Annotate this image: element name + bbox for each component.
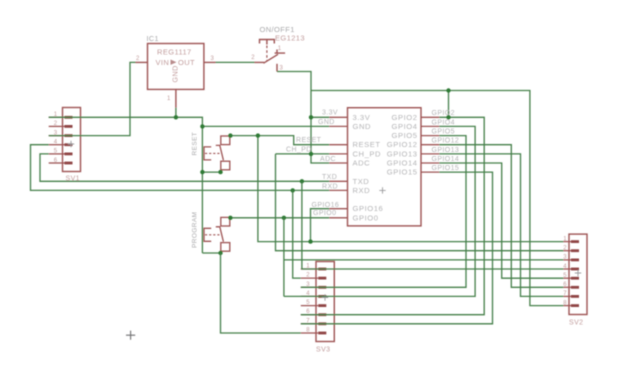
svg-text:2: 2	[306, 273, 310, 279]
svg-text:RESET: RESET	[296, 137, 322, 144]
svg-text:3.3V: 3.3V	[322, 110, 338, 117]
ESP8266 right pins	[421, 116, 439, 118]
RESET button dashed plunger	[205, 152, 220, 154]
svg-text:PROGRAM: PROGRAM	[192, 212, 199, 248]
wire GPIO13 net right side to SV2 pin7	[439, 154, 563, 297]
ON/OFF1 actuator dashed link	[266, 46, 268, 61]
svg-text:RXD: RXD	[322, 183, 338, 190]
node junction 3.3V top rail	[446, 88, 450, 92]
SV2 origin cross	[575, 270, 581, 276]
SV2 pin contacts	[571, 240, 579, 243]
slide switch ON/OFF1 EG1213 actuator bracket	[260, 40, 275, 45]
svg-text:GPIO0: GPIO0	[353, 213, 379, 222]
voltage regulator IC1 REG1117 body	[148, 44, 204, 90]
svg-text:ADC: ADC	[320, 156, 336, 163]
svg-text:ADC: ADC	[353, 159, 371, 168]
svg-text:5: 5	[54, 149, 58, 155]
node junction GPIO2 pull-up	[446, 115, 450, 119]
wire 3.3V net: switch pin3 down and right	[277, 72, 329, 164]
SV3 pin contacts	[318, 268, 326, 271]
svg-text:3: 3	[280, 66, 284, 72]
svg-text:6: 6	[54, 158, 58, 164]
svg-text:GPIO13: GPIO13	[387, 149, 418, 158]
svg-text:1: 1	[167, 96, 171, 102]
wire GPIO16 net to RESET rail	[311, 209, 330, 242]
wire 3.3V pull-up to GPIO2 row	[448, 91, 450, 118]
PROGRAM button lever	[216, 227, 224, 242]
svg-text:CH_PD: CH_PD	[353, 149, 382, 158]
svg-text:GPIO14: GPIO14	[387, 159, 418, 168]
svg-text:8: 8	[306, 328, 310, 334]
node junction TXD branch	[300, 179, 304, 183]
PROGRAM button dashed plunger	[205, 234, 220, 236]
svg-text:4: 4	[563, 264, 567, 270]
SV1 pins	[49, 116, 65, 118]
svg-text:SV3: SV3	[316, 347, 330, 354]
pushbutton RESET contacts	[221, 136, 230, 145]
svg-text:GPIO15: GPIO15	[387, 168, 418, 177]
ESP8266 module U1 body	[348, 108, 422, 226]
svg-text:7: 7	[563, 291, 567, 297]
pushbutton PROGRAM contacts	[221, 217, 230, 226]
SV3 origin cross	[322, 294, 328, 300]
svg-text:5: 5	[306, 300, 310, 306]
svg-text:4: 4	[54, 140, 58, 146]
svg-text:TXD: TXD	[322, 174, 337, 181]
wire GPIO5 net right side to SV3 pin3	[301, 136, 466, 288]
svg-text:5: 5	[563, 273, 567, 279]
svg-text:GPIO2: GPIO2	[432, 110, 455, 117]
svg-text:GPIO13: GPIO13	[432, 147, 460, 154]
wire RXD branch down to SV3 pin2	[293, 190, 301, 278]
wire CH_PD net segment	[276, 153, 330, 155]
wire GPIO2 net right side	[301, 117, 484, 314]
node junction PROGRAM button bottom pin	[218, 251, 222, 255]
wire RESET branch down to SV2 pin1	[258, 136, 564, 242]
wire RESET net: button top to ESP RESET with jog	[230, 136, 329, 145]
node junction GND corner	[200, 124, 204, 128]
ESP8266 left pins	[329, 116, 347, 118]
node junction RESET branch	[256, 133, 260, 137]
IC1 pin 2 VIN (left pin)	[136, 61, 148, 63]
svg-text:GPIO4: GPIO4	[432, 119, 455, 126]
svg-text:GPIO4: GPIO4	[392, 122, 418, 131]
svg-text:GPIO14: GPIO14	[432, 156, 460, 163]
IC1 pin 3 VOUT (right pin)	[204, 61, 216, 63]
svg-text:GPIO0: GPIO0	[313, 210, 336, 217]
RESET button bracket	[204, 147, 211, 160]
PROGRAM button bracket	[204, 228, 211, 241]
IC1 pin 1 GND (bottom pin)	[175, 89, 177, 107]
node junction RESET button top pin	[228, 133, 232, 137]
RESET button lever	[216, 145, 224, 160]
node junction 3.3V at CH_PD row	[309, 152, 313, 156]
wire GPIO15 net right side to SV3 pin6	[301, 172, 493, 324]
ON/OFF1 pin 1 (top throw)	[275, 50, 286, 54]
svg-text:GPIO5: GPIO5	[432, 129, 455, 136]
svg-text:2: 2	[54, 121, 58, 127]
svg-text:GPIO5: GPIO5	[392, 131, 418, 140]
svg-text:GND: GND	[353, 122, 372, 131]
wire VOUT net: IC1 VOUT to switch pin2	[216, 61, 255, 63]
svg-text:8: 8	[563, 300, 567, 306]
svg-text:6: 6	[563, 282, 567, 288]
wire GPIO12 net right side to SV2 pin6	[439, 145, 563, 288]
wire GPIO0 branch down to SV3 pin4 row	[283, 218, 285, 297]
wire 3.3V branch to SV2 pin2	[276, 154, 564, 251]
node junction RXD branch	[291, 188, 295, 192]
node junction PROGRAM button top pin	[228, 216, 232, 220]
ESP8266 origin cross	[379, 187, 385, 193]
RESET button stub to GND wire	[220, 170, 222, 172]
wire TXD branch down to SV3 pin1 and SV2 pin4	[302, 181, 564, 269]
svg-text:GND: GND	[171, 65, 180, 82]
svg-text:GPIO15: GPIO15	[432, 165, 460, 172]
svg-text:OUT: OUT	[178, 58, 195, 67]
svg-text:GPIO16: GPIO16	[353, 204, 384, 213]
SV2 pins	[563, 241, 571, 243]
svg-text:GPIO16: GPIO16	[312, 202, 340, 209]
wire TXD net: SV1 pin5 to ESP TXD	[40, 154, 329, 181]
svg-text:GND: GND	[318, 119, 335, 126]
pin header SV2 body	[569, 234, 587, 314]
svg-text:3.3V: 3.3V	[353, 113, 371, 122]
wire VIN net: SV1 pin3 to IC1 VIN	[49, 62, 136, 135]
node junction GND at IC1	[174, 115, 178, 119]
svg-text:SV2: SV2	[569, 320, 583, 327]
wire 3.3V branch to ESP 3.3V pin	[311, 116, 329, 118]
node junction 3.3V at ESP pin row	[309, 115, 313, 119]
SV1 pin contacts	[65, 116, 73, 119]
svg-text:2: 2	[251, 55, 255, 61]
IC1 internal arrow	[171, 60, 177, 65]
svg-text:2: 2	[136, 56, 140, 62]
svg-text:CH_PD: CH_PD	[286, 146, 312, 153]
svg-text:RXD: RXD	[353, 186, 371, 195]
wire GND to PROGRAM button bottom	[202, 252, 220, 254]
node junction RESET button bottom pin	[218, 170, 222, 174]
svg-text:RESET: RESET	[192, 132, 199, 156]
svg-text:IC1: IC1	[147, 34, 159, 43]
pin header SV3 body	[316, 262, 334, 342]
wire RXD net: SV1 pin4 to ESP RXD	[31, 145, 330, 191]
ON/OFF1 pin 3 (bottom throw)	[276, 64, 278, 72]
svg-text:1: 1	[278, 46, 282, 52]
svg-text:2: 2	[563, 246, 567, 252]
node junction GND at RESET branch	[200, 170, 204, 174]
wire GPIO0 net: PROGRAM button top to ESP GPIO0	[230, 217, 329, 219]
svg-text:VIN: VIN	[156, 58, 170, 67]
wire GND net: SV1 pin1 to corner	[49, 117, 330, 126]
SV1 origin cross	[68, 141, 74, 147]
wire GND from IC1 pin1	[175, 108, 177, 118]
svg-text:REG1117: REG1117	[157, 48, 192, 57]
node junction GPIO0 branch	[282, 216, 286, 220]
wire GPIO0 rail to SV2 pin3	[284, 259, 564, 261]
svg-text:RESET: RESET	[353, 140, 381, 149]
svg-text:GPIO2: GPIO2	[392, 113, 418, 122]
SV3 pins	[301, 268, 319, 270]
wire GND down to SV3 pin8	[221, 253, 301, 333]
svg-text:3: 3	[211, 56, 215, 62]
sheet origin cross	[126, 331, 135, 340]
svg-text:EG1213: EG1213	[275, 34, 305, 43]
PROGRAM button stub to wire	[220, 251, 222, 253]
wire 3.3V top rail to right side	[311, 91, 563, 306]
svg-text:GPIO12: GPIO12	[387, 140, 418, 149]
ON/OFF1 pin 2 (common, left)	[255, 61, 265, 63]
ON/OFF1 lever	[264, 54, 279, 63]
svg-text:TXD: TXD	[353, 177, 370, 186]
wire GND vertical to buttons	[201, 126, 203, 253]
svg-text:GPIO12: GPIO12	[432, 138, 460, 145]
svg-text:3: 3	[563, 255, 567, 261]
wire GPIO14 net right side to SV2 pin5	[439, 163, 563, 278]
node junction GPIO16 joins RESET rail	[308, 239, 312, 243]
wire GND to RESET button bottom	[202, 171, 220, 173]
pin header SV1 body	[63, 108, 81, 172]
svg-text:1: 1	[563, 236, 567, 242]
wire GPIO4 net right side to SV3 pin4	[284, 126, 475, 296]
